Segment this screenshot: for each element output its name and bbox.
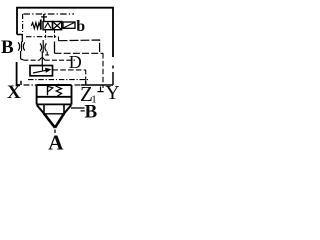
pilot line L4 — [55, 52, 104, 54]
tee mark on drain — [45, 52, 49, 56]
solenoid b box — [63, 22, 75, 28]
port A stub — [54, 130, 56, 135]
solenoid diagonal — [63, 22, 75, 28]
pilot enclosure top dash-dot line — [24, 13, 75, 15]
pilot line L7 — [28, 79, 88, 81]
port X stub — [20, 81, 22, 85]
orifice 2 arcs — [40, 43, 42, 51]
svg-text:A: A — [48, 131, 64, 155]
pilot supply line up from pilot valve — [43, 14, 45, 22]
svg-text:Y: Y — [105, 82, 119, 104]
pilot line L5 with crossover hop — [23, 59, 39, 61]
svg-text:b: b — [76, 18, 85, 35]
pilot valve left bar — [40, 20, 42, 30]
seat box left wall — [43, 104, 45, 113]
main valve left wall — [36, 85, 38, 105]
main valve poppet flag — [48, 86, 53, 92]
port B line right — [71, 107, 85, 109]
orifice 1 line — [21, 42, 23, 52]
enclosure outer box top and upper-left edge — [17, 8, 113, 57]
pilot line L3 to right — [59, 40, 100, 53]
pilot valve position square 1 (seat poppet) — [43, 22, 53, 30]
port Z1 stub — [85, 81, 87, 85]
port B tick — [81, 110, 85, 112]
enclosure right lower edge — [112, 72, 114, 85]
pilot line tee bar — [41, 16, 47, 18]
pilot valve position square 2 (closed X) — [53, 22, 62, 30]
enclosure bottom right solid — [81, 84, 114, 86]
enclosure left jog to port B passage — [17, 34, 23, 36]
pilot line L6 from cover to Z1 — [53, 69, 86, 71]
svg-text:X: X — [7, 82, 21, 103]
seat box right wall — [63, 104, 65, 113]
pilot drain vertical to Y — [102, 53, 104, 88]
orifice 2 line — [42, 40, 44, 43]
enclosure bottom dash-dot left — [24, 84, 37, 86]
cover internal passage line — [42, 66, 44, 71]
pilot line L2 dash-dot — [26, 36, 59, 38]
funnel outer left — [37, 105, 45, 114]
pilot valve closed position cross — [53, 22, 62, 30]
corner under orifice 1 — [21, 51, 24, 60]
pilot drop to port Z1 — [85, 70, 87, 81]
cover internal arrow shaft — [33, 70, 46, 73]
svg-text:B: B — [85, 102, 98, 123]
main valve spring — [56, 84, 61, 96]
funnel outer right — [63, 105, 71, 114]
pilot drain line V1 — [45, 30, 47, 40]
enclosure bottom dash right of valve — [75, 84, 81, 86]
pilot valve poppet symbol — [45, 23, 51, 29]
svg-text:B: B — [1, 37, 14, 58]
pilot enclosure left dash-dot line — [22, 14, 24, 35]
main cartridge valve body top edge — [37, 84, 72, 86]
main valve seat line — [37, 103, 72, 105]
funnel V left — [44, 114, 55, 128]
pilot valve spring — [31, 23, 40, 29]
control cover box D — [30, 66, 53, 76]
svg-text:D: D — [69, 52, 82, 72]
main valve mid line — [37, 96, 72, 98]
pilot line step — [58, 37, 60, 41]
orifice 1 arcs — [18, 42, 20, 50]
enclosure right edge dot — [112, 66, 114, 69]
main valve right wall — [71, 85, 73, 105]
pilot drain line V2 — [54, 30, 56, 40]
seat box bottom — [44, 113, 64, 115]
enclosure lower-left edge — [17, 62, 20, 85]
funnel V right — [55, 114, 64, 128]
main valve poppet stem — [47, 85, 49, 95]
cover internal arrow head — [45, 68, 52, 73]
plugged port Y symbol — [97, 87, 103, 92]
